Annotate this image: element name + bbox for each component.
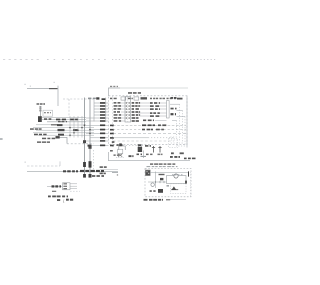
unit inner dotted label: [172, 174, 174, 175]
ground label: [37, 103, 40, 105]
connector strip CN2: [167, 101, 170, 119]
board header row: [88, 98, 91, 100]
vertical feed wire: [155, 172, 157, 189]
wire drop: [39, 106, 41, 118]
control board top feed wire: [109, 88, 121, 96]
fan motor dashed sub-box: [171, 184, 187, 194]
unit under-line: [170, 199, 186, 201]
cabinet boundary dashed: [27, 161, 60, 166]
board pin stub wires: [121, 103, 125, 121]
fresh food dashed boundary top: [63, 98, 94, 100]
board right solid edge: [186, 96, 188, 148]
vertical wires in grid: [70, 116, 82, 138]
wire power supply stub: [25, 82, 58, 89]
sensor caption: [137, 154, 140, 156]
fold dashed line across page: [3, 58, 216, 60]
wire label top: [159, 174, 165, 175]
small note: [52, 191, 56, 192]
board pin rows left labels: [114, 102, 117, 104]
sensor component legs: [139, 146, 142, 152]
main vertical harness A: [84, 98, 86, 178]
thermostat box: [43, 110, 53, 116]
right caption under board: [170, 156, 173, 158]
sensor component body: [138, 147, 142, 152]
thermostat caption rows: [48, 196, 51, 198]
unit title line 1: [150, 163, 153, 164]
relay row dash: [141, 156, 147, 157]
relay outline box: [118, 149, 123, 153]
dashed jumper: [67, 143, 94, 145]
terminal blobs lower rows: [88, 124, 115, 146]
fuse F1: [152, 146, 155, 153]
board inner dashed rail: [112, 96, 114, 148]
jumper dashed: [70, 190, 80, 192]
mid wires to strip 2: [138, 103, 150, 116]
wire dark segment: [51, 124, 59, 126]
row end mark: [112, 141, 115, 143]
arch top terminal blob: [119, 143, 122, 146]
wire drop from board: [143, 151, 145, 159]
nested corner inner box: [169, 139, 178, 148]
unit inner captions: [150, 190, 152, 192]
relay X symbol: [118, 154, 122, 157]
defrost relay arch: [119, 146, 125, 150]
defrost heater lead: [47, 186, 62, 188]
dashed vertical harness C: [93, 99, 95, 122]
unit inlet relay block: [146, 170, 150, 175]
compressor loop: [167, 176, 187, 184]
CN1 pin marks: [126, 102, 130, 118]
junction dots grid: [69, 124, 91, 136]
overload protector blob: [160, 178, 163, 180]
unit top wire: [150, 172, 189, 174]
strip 2 labels: [150, 102, 153, 104]
wire labels on bundle: [44, 118, 47, 120]
faint dash under relay: [116, 157, 124, 159]
page edge tick: [0, 138, 3, 139]
nested corner wires right: [170, 104, 185, 120]
dotted right edge: [190, 172, 192, 196]
wire bundle from plug: [42, 117, 86, 121]
right section labels: [171, 97, 174, 99]
part number label: [184, 158, 187, 160]
run capacitor small circle: [151, 183, 154, 186]
wire turn to lower left: [57, 137, 67, 143]
unit mid wire: [148, 181, 167, 183]
wire labels grid: [30, 128, 34, 130]
fresh food dashed boundary left: [68, 99, 70, 117]
dotted rows lower board: [113, 125, 186, 145]
harness junction blobs: [83, 140, 92, 149]
loop corner mark: [185, 181, 187, 184]
strip 2 stub wires: [159, 103, 167, 116]
unit caption below: [144, 199, 148, 201]
lower-left labels: [100, 166, 103, 168]
wires from harness to lower board rows: [86, 125, 109, 145]
connector housing edge: [105, 98, 107, 123]
bottom edge labels: [110, 150, 184, 154]
board title: [128, 92, 132, 94]
terminal block TB1: [63, 183, 71, 190]
unit title line 2: [147, 166, 151, 167]
control board dashed box: [109, 96, 188, 145]
junction blob: [56, 136, 60, 138]
compressor motor circle: [174, 174, 178, 178]
cabinet boundary solid: [27, 171, 118, 173]
wire riser from supply: [57, 86, 59, 106]
junction cluster: [57, 124, 78, 136]
lower pin row long label: [143, 120, 146, 122]
main vertical harness B: [89, 98, 91, 178]
mullion divider wire: [109, 152, 191, 161]
terminal tick right: [188, 171, 190, 176]
node grid wires left: [33, 125, 94, 135]
defrost heater label: [52, 185, 55, 187]
disconnect labels on boundary: [63, 170, 66, 172]
feed wire label: [110, 86, 112, 87]
inter-relay marks: [146, 154, 149, 156]
wire tag marks: [117, 144, 119, 146]
connector plug P1: [38, 116, 42, 122]
relay row mark: [129, 155, 132, 157]
terminal blobs on bundle: [100, 98, 105, 121]
connector J1: [39, 107, 41, 112]
fuse F2: [158, 146, 161, 153]
row labels lower board: [142, 124, 146, 126]
harness connectors on verticals: [83, 161, 91, 177]
fan motor symbol: [171, 186, 178, 190]
wire bundle to control board: [86, 103, 109, 121]
connector strip CN1: [125, 97, 131, 122]
start relay block: [158, 189, 163, 193]
header small label: [114, 154, 116, 156]
unit compartment dashed box: [145, 168, 191, 196]
board pin rows right labels: [132, 102, 135, 104]
